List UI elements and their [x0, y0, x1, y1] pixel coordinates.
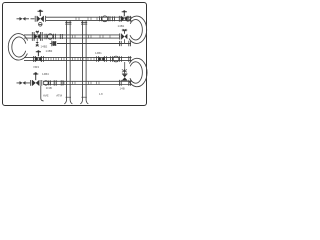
svg-text:1.8: 1.8 [99, 92, 103, 96]
run3 right meter circle [111, 56, 122, 62]
drain boss under run1 left valve [39, 23, 43, 27]
run1 pipe [46, 17, 132, 20]
run2a pipe [24, 35, 120, 38]
run1 right meter circle assembly [100, 16, 110, 22]
run1 flange pair [113, 16, 115, 21]
drain bottom ticks [66, 96, 87, 98]
run3 left gate valve with stem [33, 50, 43, 62]
run2b pipe [57, 43, 131, 45]
run2a flange pair [60, 34, 62, 39]
svg-text:ATM: ATM [56, 94, 62, 98]
drain tee flanges below run1 [65, 22, 87, 24]
upper-right loop flanges [129, 16, 131, 46]
run1 inlet bowtie valve [20, 17, 26, 21]
run1 inlet line [17, 18, 35, 20]
svg-text:14B: 14B [120, 87, 125, 91]
run2a right valve with stem and drop to run2b [119, 29, 127, 46]
lower-right vertical valve [119, 62, 127, 86]
run4 left gate valve with stem [30, 72, 41, 86]
run3 ticks [46, 57, 94, 60]
upper-right omega loop [129, 16, 147, 43]
svg-text:AVE: AVE [43, 93, 49, 97]
left omega loop [8, 34, 27, 60]
run2a ticks [73, 35, 111, 38]
run4 pipe [43, 81, 132, 84]
run3 pipe [24, 57, 132, 60]
run1 ticks [76, 17, 97, 20]
border frame [3, 3, 147, 106]
run2a circle meter [45, 34, 55, 39]
run2a drop stub valve [36, 38, 39, 46]
run3 right valve [97, 56, 107, 61]
svg-text:3/4B: 3/4B [46, 86, 52, 90]
left drain flare [64, 100, 72, 104]
lower-right loop flanges [129, 56, 131, 86]
right vertical drain pipe [83, 20, 87, 100]
svg-text:14B3: 14B3 [46, 49, 53, 53]
svg-text:VM3: VM3 [33, 65, 39, 69]
pipe tick texture [46, 17, 110, 84]
run4 circle meter [44, 81, 49, 86]
svg-text:14B1: 14B1 [95, 51, 102, 55]
run1 left gate valve with stem [35, 10, 45, 22]
lower-right omega loop [129, 58, 147, 86]
leader line bottom-left [41, 86, 44, 101]
run2b left end cap [50, 41, 56, 47]
run4 inlet line [17, 82, 31, 84]
text labels [33, 24, 125, 98]
right drain flare [80, 100, 88, 104]
svg-text:14B1: 14B1 [118, 24, 125, 28]
run4 inlet bowtie valve [20, 81, 26, 85]
svg-text:14B4: 14B4 [42, 72, 49, 76]
run4 ticks [64, 81, 99, 84]
run1 right gate valve [119, 10, 127, 21]
run4 middle flange [61, 80, 63, 85]
run2a left valve cluster [32, 31, 42, 41]
left vertical drain pipe [67, 20, 71, 100]
